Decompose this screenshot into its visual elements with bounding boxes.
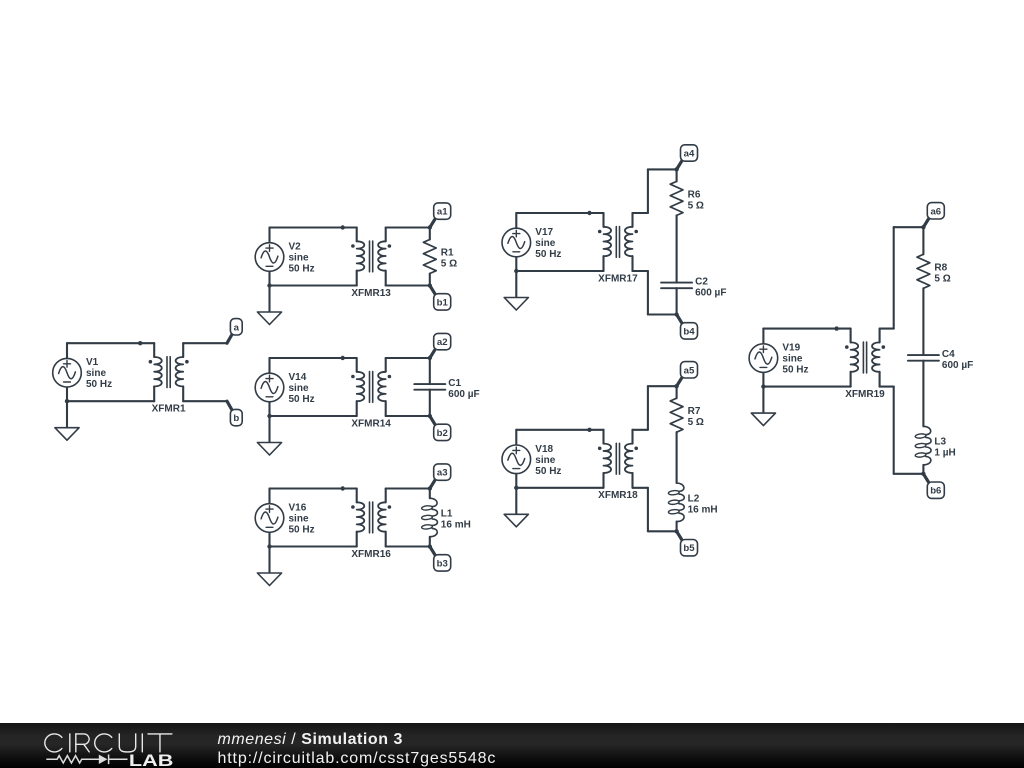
svg-text:XFMR17: XFMR17 <box>598 273 638 284</box>
svg-text:a5: a5 <box>684 365 695 376</box>
svg-text:5 Ω: 5 Ω <box>688 200 704 211</box>
svg-text:b3: b3 <box>437 558 448 569</box>
svg-text:b: b <box>233 413 239 424</box>
svg-text:R1: R1 <box>441 248 454 259</box>
svg-text:V2: V2 <box>289 242 302 253</box>
svg-text:b4: b4 <box>683 326 695 337</box>
svg-text:V14: V14 <box>289 372 307 383</box>
svg-text:sine: sine <box>289 514 309 525</box>
svg-text:a4: a4 <box>684 149 695 160</box>
svg-text:L3: L3 <box>934 437 946 448</box>
svg-text:600 µF: 600 µF <box>942 360 973 371</box>
svg-text:sine: sine <box>535 455 555 466</box>
svg-text:XFMR14: XFMR14 <box>351 418 391 429</box>
svg-text:50 Hz: 50 Hz <box>535 466 561 477</box>
svg-text:sine: sine <box>782 354 802 365</box>
svg-text:600 µF: 600 µF <box>695 288 726 299</box>
svg-text:LAB: LAB <box>129 752 174 768</box>
svg-text:V16: V16 <box>289 503 307 514</box>
svg-text:a2: a2 <box>437 337 448 348</box>
svg-text:V18: V18 <box>535 444 553 455</box>
svg-text:V1: V1 <box>86 357 99 368</box>
svg-text:600 µF: 600 µF <box>448 389 479 400</box>
svg-text:a: a <box>234 322 240 333</box>
svg-text:L2: L2 <box>688 493 700 504</box>
svg-text:5 Ω: 5 Ω <box>688 417 704 428</box>
svg-text:sine: sine <box>289 253 309 264</box>
svg-text:C1: C1 <box>448 378 461 389</box>
svg-text:C4: C4 <box>942 349 955 360</box>
svg-text:50 Hz: 50 Hz <box>289 394 315 405</box>
svg-text:50 Hz: 50 Hz <box>782 365 808 376</box>
svg-text:50 Hz: 50 Hz <box>289 525 315 536</box>
svg-text:b2: b2 <box>437 428 448 439</box>
svg-text:V19: V19 <box>782 343 800 354</box>
svg-text:16 mH: 16 mH <box>441 520 471 531</box>
svg-text:5 Ω: 5 Ω <box>934 273 950 284</box>
svg-text:C2: C2 <box>695 277 708 288</box>
svg-text:L1: L1 <box>441 509 453 520</box>
svg-text:R6: R6 <box>688 189 701 200</box>
svg-text:XFMR16: XFMR16 <box>351 549 391 560</box>
svg-text:XFMR19: XFMR19 <box>845 389 885 400</box>
svg-text:50 Hz: 50 Hz <box>289 264 315 275</box>
svg-text:b1: b1 <box>437 297 449 308</box>
svg-text:a6: a6 <box>930 206 941 217</box>
svg-text:R7: R7 <box>688 406 701 417</box>
svg-text:b5: b5 <box>683 543 695 554</box>
svg-text:50 Hz: 50 Hz <box>86 379 112 390</box>
svg-text:1 µH: 1 µH <box>934 448 955 459</box>
svg-text:V17: V17 <box>535 227 553 238</box>
svg-text:5 Ω: 5 Ω <box>441 259 457 270</box>
svg-text:sine: sine <box>86 368 106 379</box>
svg-text:a3: a3 <box>437 468 448 479</box>
svg-text:a1: a1 <box>437 207 448 218</box>
svg-text:XFMR1: XFMR1 <box>152 404 186 415</box>
svg-text:XFMR13: XFMR13 <box>351 288 391 299</box>
svg-text:50 Hz: 50 Hz <box>535 249 561 260</box>
svg-text:XFMR18: XFMR18 <box>598 490 638 501</box>
svg-text:16 mH: 16 mH <box>688 504 718 515</box>
svg-text:sine: sine <box>535 238 555 249</box>
svg-text:b6: b6 <box>930 486 941 497</box>
svg-text:sine: sine <box>289 383 309 394</box>
svg-text:R8: R8 <box>934 262 947 273</box>
